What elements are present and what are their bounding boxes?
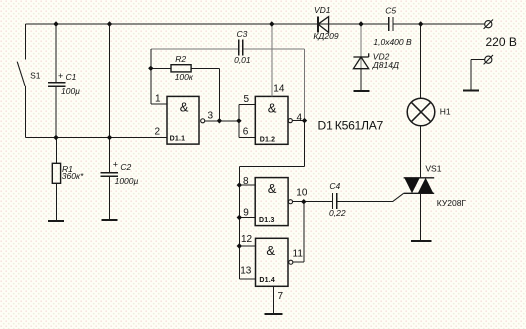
gate D1.2 output bubble xyxy=(288,119,292,123)
wire VD2 bottom xyxy=(360,69,362,91)
wire pin11 horizontal xyxy=(293,261,304,263)
wire 5/6 input bus xyxy=(238,104,240,137)
wire pin13 xyxy=(239,278,255,280)
svg-text:К561ЛА7: К561ЛА7 xyxy=(335,119,384,133)
svg-text:H1: H1 xyxy=(440,107,451,117)
wire across to input bus xyxy=(239,165,304,167)
svg-text:C1: C1 xyxy=(66,72,77,82)
svg-text:C4: C4 xyxy=(329,181,340,191)
node pin10 xyxy=(301,199,306,204)
svg-text:12: 12 xyxy=(241,234,253,245)
wire pin4 node down xyxy=(304,121,306,167)
wire pin6 xyxy=(239,136,255,138)
svg-text:4: 4 xyxy=(297,113,303,124)
wire C1 bottom xyxy=(55,86,57,137)
node C2 bottom xyxy=(107,135,112,140)
wire C2 bottom xyxy=(109,176,111,220)
svg-text:КД209: КД209 xyxy=(313,31,338,41)
ground below terminal2 xyxy=(463,90,479,92)
switch S1 xyxy=(17,62,25,86)
svg-text:360к*: 360к* xyxy=(62,171,84,181)
node C2 top xyxy=(107,21,112,26)
node R2 left xyxy=(148,66,153,71)
wire C1 top xyxy=(55,24,57,83)
gate D1.3 box xyxy=(255,178,288,226)
svg-text:VD1: VD1 xyxy=(314,5,331,15)
svg-text:D1.1: D1.1 xyxy=(170,136,186,143)
svg-text:100µ: 100µ xyxy=(61,86,80,96)
svg-text:1: 1 xyxy=(155,93,161,104)
wire D1.1 output xyxy=(205,120,239,122)
capacitor C3 xyxy=(239,40,243,56)
gate D1.4 box xyxy=(256,238,289,286)
wire bottom rail to pin 2 xyxy=(26,137,168,139)
ground below triac xyxy=(411,240,431,242)
wire 8/9/12/13 input bus xyxy=(238,166,240,279)
svg-text:&: & xyxy=(268,101,277,116)
wire C3 right vertical to pin4 node xyxy=(304,49,306,121)
svg-text:1000µ: 1000µ xyxy=(115,176,139,186)
wire below switch xyxy=(25,86,27,138)
wire triac gate diagonal xyxy=(393,193,404,201)
node VD2 top xyxy=(358,21,363,26)
resistor R1 xyxy=(52,163,60,183)
ground below C2 xyxy=(102,219,118,221)
svg-text:+: + xyxy=(113,160,118,170)
wire terminal2 down xyxy=(470,60,472,91)
node C1 bottom xyxy=(53,135,58,140)
wire C4 to triac gate xyxy=(337,201,393,203)
svg-text:&: & xyxy=(266,243,275,258)
svg-text:&: & xyxy=(180,100,189,115)
svg-text:10: 10 xyxy=(296,188,308,199)
svg-text:11: 11 xyxy=(293,248,304,259)
svg-text:5: 5 xyxy=(244,94,250,105)
svg-text:0,22: 0,22 xyxy=(329,208,346,218)
node pin14 top xyxy=(269,21,274,26)
wire pin7 down xyxy=(273,286,275,314)
node C1 top xyxy=(53,21,58,26)
wire top rail left segment xyxy=(26,23,389,25)
wire pin8 xyxy=(239,184,255,186)
node 5/6 bus xyxy=(236,118,241,123)
svg-text:1,0х400 В: 1,0х400 В xyxy=(373,37,412,47)
gate D1.3 output bubble xyxy=(288,200,292,204)
wire pin1 horizontal xyxy=(151,103,167,105)
node lamp top xyxy=(418,21,423,26)
wire left drop to switch xyxy=(25,24,27,60)
ground below VD2 xyxy=(353,90,369,92)
diode VD1 xyxy=(318,17,329,33)
svg-text:220 В: 220 В xyxy=(486,35,517,49)
svg-text:&: & xyxy=(268,181,277,196)
wire C2 column from top rail xyxy=(109,24,111,173)
wire D1.2 output xyxy=(293,120,305,122)
svg-text:D1.4: D1.4 xyxy=(259,277,275,284)
svg-text:6: 6 xyxy=(243,126,249,137)
wire pin10 node down to pin11 xyxy=(303,202,305,263)
svg-text:D1.2: D1.2 xyxy=(260,136,276,143)
wire R1 top xyxy=(56,138,58,164)
zener VD2 xyxy=(353,53,368,68)
wire R2 right vertical to output node xyxy=(218,68,220,121)
capacitor C4 xyxy=(333,193,337,209)
svg-text:R2: R2 xyxy=(175,54,186,64)
svg-text:C3: C3 xyxy=(237,29,248,39)
terminal 220V top xyxy=(484,20,493,29)
ground below R1 xyxy=(48,220,64,222)
wire R2 left xyxy=(151,67,171,69)
node pin9 xyxy=(237,215,242,220)
wire pin1 vertical xyxy=(150,49,152,104)
svg-text:13: 13 xyxy=(240,266,252,277)
svg-text:S1: S1 xyxy=(30,71,41,81)
svg-text:3: 3 xyxy=(208,110,214,121)
svg-text:C2: C2 xyxy=(120,162,131,172)
capacitor C1 xyxy=(48,83,66,87)
ground below pin7 xyxy=(265,313,283,315)
capacitor C2 xyxy=(101,173,119,177)
wire lamp bottom xyxy=(420,126,422,178)
gate D1.2 box xyxy=(255,96,288,144)
gate D1.4 output bubble xyxy=(289,260,293,264)
node R2 right xyxy=(217,118,222,123)
gate D1.1 box xyxy=(167,96,199,144)
svg-text:D1.3: D1.3 xyxy=(259,217,275,224)
svg-text:9: 9 xyxy=(243,208,249,219)
wire R1 bottom xyxy=(56,183,58,221)
svg-text:2: 2 xyxy=(155,127,161,138)
gate D1.1 output bubble xyxy=(201,119,205,123)
wire top rail right of C5 xyxy=(393,23,485,25)
svg-text:D1: D1 xyxy=(318,119,334,133)
node pin8 xyxy=(237,182,242,187)
resistor R2 xyxy=(171,65,191,72)
wire feedback top (C3 net) xyxy=(151,48,304,50)
wire triac bottom xyxy=(420,193,422,241)
terminal 220V bottom xyxy=(484,55,493,64)
wire terminal2 left xyxy=(471,59,485,61)
node pin4 xyxy=(302,118,307,123)
wire R2 right xyxy=(191,67,219,69)
svg-text:7: 7 xyxy=(278,291,284,302)
svg-text:C5: C5 xyxy=(385,6,396,16)
svg-text:0,01: 0,01 xyxy=(234,55,251,65)
wire pin12 xyxy=(239,245,255,247)
svg-text:VS1: VS1 xyxy=(425,164,441,174)
node pin12 xyxy=(237,243,242,248)
wire pin5 xyxy=(239,103,255,105)
triac VS1 xyxy=(404,178,435,194)
lamp H1 xyxy=(407,98,435,126)
zener VD2 stem xyxy=(360,24,362,69)
svg-text:14: 14 xyxy=(273,84,285,95)
wire lamp top xyxy=(420,24,422,98)
wire pin9 xyxy=(239,217,255,219)
wire D1.3 output to node xyxy=(293,201,304,203)
wire pin14 to top rail xyxy=(271,24,273,96)
svg-text:Д814Д: Д814Д xyxy=(372,60,399,70)
capacitor C5 xyxy=(389,17,393,31)
svg-text:КУ208Г: КУ208Г xyxy=(437,198,467,208)
svg-text:8: 8 xyxy=(243,176,249,187)
wire pin10 node to C4 xyxy=(304,201,333,203)
svg-text:+: + xyxy=(58,71,63,81)
svg-text:100к: 100к xyxy=(175,72,194,82)
